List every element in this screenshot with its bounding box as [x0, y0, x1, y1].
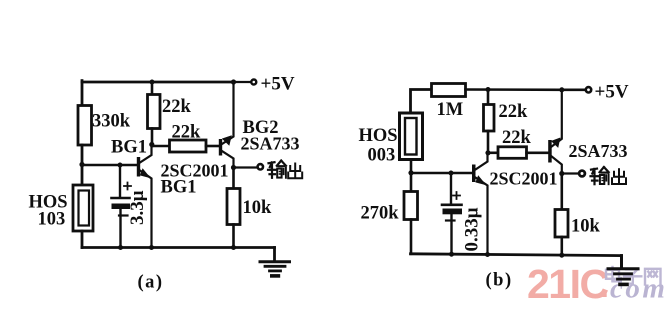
node: collector junction (b) [485, 150, 490, 155]
svg-text:003: 003 [368, 146, 396, 166]
svg-text:10k: 10k [571, 217, 601, 237]
svg-text:2SC2001: 2SC2001 [490, 169, 558, 189]
wire: 22k to junction (b) [487, 131, 490, 153]
resistor R 10k body (a) [227, 189, 240, 225]
svg-text:270k: 270k [361, 204, 400, 224]
resistor R 22k horizontal body (a) [170, 140, 207, 152]
svg-text:(b): (b) [486, 271, 513, 291]
wire: 22k to 2SA733 base (b) [527, 152, 549, 155]
transistor 2SC2001 (b) [472, 153, 488, 255]
wire: 22k to collector node (a) [151, 129, 154, 147]
node: emitter on bottom rail (a) [149, 245, 154, 250]
svg-text:+5V: +5V [261, 74, 295, 95]
watermark logo 21IC [527, 261, 667, 307]
svg-text:(a): (a) [138, 273, 164, 293]
wire: output node to 10k (b) [560, 174, 563, 211]
wire: 10k to bottom rail (a) [232, 225, 235, 248]
svg-text:BG1: BG1 [161, 178, 197, 198]
node: cap on bottom rail (a) [118, 245, 123, 250]
node: base junction (b) [408, 170, 413, 175]
terminal +5V (b) [586, 87, 591, 92]
node: 10k on bottom rail (b) [559, 253, 564, 258]
svg-text:3.3μ: 3.3μ [127, 190, 148, 225]
node: 2SA733 emitter on rail (b) [559, 87, 564, 92]
svg-text:103: 103 [38, 210, 66, 230]
wire: bottom rail (a) [82, 246, 275, 249]
label 输出 char shu (b) [591, 167, 609, 184]
svg-text:+5V: +5V [595, 82, 629, 103]
svg-text:22k: 22k [502, 128, 532, 148]
wire: base wire (a) [82, 164, 137, 167]
wire: output (a) [234, 166, 258, 168]
svg-text:22k: 22k [499, 102, 529, 122]
sensor HOS-003 outer (b) [400, 113, 423, 160]
wire: node to 22k horizontal (a) [152, 145, 170, 148]
node: BG2 emitter on rail (a) [231, 79, 236, 84]
wire: rail to +5V terminal (a) [234, 81, 251, 83]
wire: rail to 22k (a) [151, 82, 154, 95]
sensor HOS-103 outer (a) [73, 185, 93, 231]
transistor 2SA733 (b) [548, 90, 562, 174]
node: output junction (b) [559, 171, 564, 176]
resistor R 10k body (b) [555, 210, 568, 238]
wire: junction to 22k horizontal (b) [488, 152, 499, 155]
wire: left rail top (a) [81, 81, 84, 106]
resistor R 22k vertical body (a) [148, 95, 161, 129]
wire: node to 270k (b) [410, 173, 413, 192]
wire: 10k to bottom rail (b) [560, 237, 563, 255]
label 输出 char chu (a) [288, 164, 302, 179]
capacitor C 3.3u (a) [112, 165, 132, 248]
watermark char 网 [645, 269, 661, 285]
transistor BG1 2SC2001 (a) [137, 144, 152, 248]
terminal +5V (a) [251, 80, 256, 85]
resistor R 330k body (a) [78, 106, 92, 146]
node: emitter on bottom rail (b) [485, 252, 490, 257]
wire: +5V rail (b) [466, 88, 586, 91]
sensor HOS-003 inner (b) [405, 118, 417, 155]
wire: rail to 22k vertical (b) [487, 90, 490, 106]
wire: +5V rail (a) [82, 81, 234, 84]
svg-text:2SA733: 2SA733 [241, 134, 300, 154]
watermark char 子 [624, 269, 641, 283]
resistor R 1M body (b) [432, 84, 466, 97]
label 输出 char chu (b) [612, 169, 626, 184]
node: base junction left (a) [79, 162, 84, 167]
svg-text:21IC: 21IC [527, 261, 608, 307]
resistor R 270k body (b) [404, 192, 418, 220]
node: cap tap (b) [449, 171, 454, 176]
svg-text:BG1: BG1 [111, 138, 147, 158]
node: rail tap 22k (a) [150, 80, 155, 85]
ground (a) [260, 248, 290, 276]
label 输出 char shu (a) [268, 161, 286, 178]
watermark char 电 [606, 267, 621, 281]
node: rail tap 22k (b) [486, 87, 491, 92]
transistor BG2 2SA733 (a) [219, 82, 234, 168]
node: cap on bottom rail (b) [449, 252, 454, 257]
terminal output (b) [579, 171, 585, 177]
ground (b) [608, 256, 638, 285]
wire: 330k to HOS node (a) [81, 145, 84, 186]
svg-text:HOS: HOS [359, 126, 398, 146]
capacitor C 0.33u (b) [442, 173, 462, 254]
svg-text:0.33μ: 0.33μ [462, 207, 483, 251]
node: output junction (a) [231, 165, 236, 170]
wire: base wire (b) [411, 172, 472, 175]
wire: HOS to node (b) [410, 160, 413, 174]
svg-text:1M: 1M [437, 100, 464, 120]
wire: output (b) [562, 172, 579, 174]
wire: bottom rail (b) [411, 254, 622, 256]
wire: 22k to BG2 base (a) [206, 145, 219, 148]
terminal output (a) [258, 164, 263, 169]
resistor R 22k vertical body (b) [484, 105, 495, 132]
wire: rail corner to 1M (b) [411, 90, 433, 114]
wire: output node to 10k (a) [232, 168, 235, 190]
node: cap tap (a) [118, 163, 123, 168]
svg-text:22k: 22k [162, 97, 192, 117]
sensor HOS-103 inner (a) [79, 191, 90, 226]
svg-text:10k: 10k [243, 198, 273, 218]
svg-text:330k: 330k [92, 112, 131, 132]
node: collector junction (a) [149, 142, 154, 147]
node: 10k on bottom rail (a) [231, 245, 236, 250]
wire: HOS to bottom rail (a) [81, 231, 84, 248]
resistor R 22k horizontal body (b) [498, 147, 527, 159]
svg-text:22k: 22k [172, 123, 202, 143]
wire: 270k to bottom rail (b) [410, 220, 413, 254]
svg-text:2SA733: 2SA733 [569, 141, 628, 161]
